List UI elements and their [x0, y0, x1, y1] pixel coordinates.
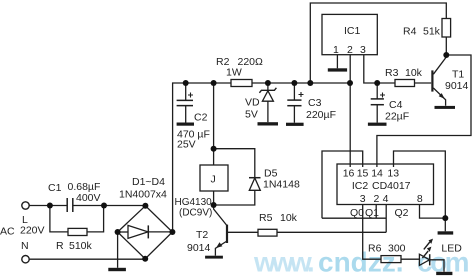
svg-text:1W: 1W: [226, 67, 242, 79]
svg-text:400V: 400V: [76, 192, 101, 204]
svg-text:www.: www.: [253, 247, 313, 277]
svg-text:220V: 220V: [20, 225, 45, 237]
svg-text:3: 3: [360, 44, 366, 56]
svg-text:R4: R4: [403, 26, 417, 38]
svg-text:1: 1: [333, 44, 339, 56]
svg-text:T1: T1: [452, 69, 464, 81]
svg-text:4: 4: [383, 193, 389, 205]
svg-text:R5: R5: [259, 212, 273, 224]
svg-text:1N4148: 1N4148: [263, 179, 300, 191]
svg-text:HG4130: HG4130: [175, 197, 213, 208]
svg-text:J: J: [211, 174, 216, 186]
svg-text:CD4017: CD4017: [372, 180, 411, 192]
svg-text:25V: 25V: [177, 139, 196, 151]
svg-text:510k: 510k: [69, 240, 93, 252]
svg-text:16: 16: [343, 168, 355, 180]
svg-text:IC1: IC1: [344, 25, 361, 37]
svg-text:1N4007x4: 1N4007x4: [119, 189, 167, 201]
svg-text:8: 8: [417, 193, 423, 205]
svg-text:9014: 9014: [445, 80, 469, 92]
svg-text:C4: C4: [389, 99, 403, 111]
svg-text:15: 15: [357, 168, 369, 180]
svg-text:R: R: [56, 240, 64, 252]
svg-text:2: 2: [374, 193, 380, 205]
svg-text:3: 3: [360, 193, 366, 205]
svg-text:VD: VD: [245, 97, 260, 109]
svg-text:22µF: 22µF: [385, 111, 409, 123]
svg-text:Q1: Q1: [365, 207, 379, 219]
svg-text:C2: C2: [194, 112, 208, 124]
svg-text:Q0: Q0: [350, 207, 364, 219]
svg-text:IC2: IC2: [352, 180, 369, 192]
svg-text:10k: 10k: [405, 67, 423, 79]
svg-text:5V: 5V: [245, 109, 258, 121]
svg-text:LED: LED: [441, 243, 462, 255]
svg-text:R3: R3: [385, 67, 399, 79]
svg-text:C3: C3: [308, 97, 322, 109]
svg-text:N: N: [21, 240, 29, 252]
svg-text:51k: 51k: [423, 26, 441, 38]
svg-text:13: 13: [387, 168, 399, 180]
svg-text:T2: T2: [196, 229, 208, 241]
svg-text:300: 300: [388, 243, 406, 255]
svg-text:R6: R6: [368, 243, 382, 255]
svg-text:2: 2: [347, 44, 353, 56]
svg-text:9014: 9014: [187, 242, 211, 254]
svg-text:C1: C1: [48, 182, 62, 194]
svg-text:10k: 10k: [280, 212, 298, 224]
svg-text:220µF: 220µF: [306, 109, 336, 121]
svg-text:AC: AC: [0, 226, 15, 238]
svg-text:D1~D4: D1~D4: [132, 176, 165, 188]
svg-text:Q2: Q2: [395, 207, 409, 219]
svg-text:14: 14: [371, 168, 383, 180]
svg-text:(DC9V): (DC9V): [179, 208, 212, 219]
